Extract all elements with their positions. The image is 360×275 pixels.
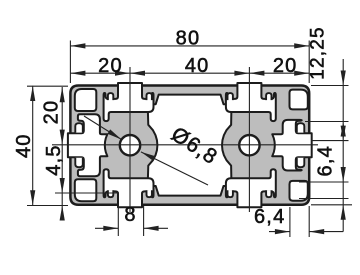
corner cavity bottom-right bbox=[290, 181, 308, 201]
core bore left Ø6.8 bbox=[120, 135, 140, 155]
dimension 8 line bbox=[95, 227, 118, 229]
svg-text:80: 80 bbox=[176, 28, 201, 50]
extension line x=118.3 bottom slot opening bbox=[117, 206, 119, 236]
svg-text:4,5: 4,5 bbox=[43, 144, 65, 175]
extension line bottom face left bbox=[27, 205, 68, 207]
dimension 6,4 line bottom bbox=[269, 231, 290, 233]
lip grooves right end slot bbox=[297, 123, 305, 132]
lip grooves top-left slot bbox=[108, 93, 113, 100]
svg-text:40: 40 bbox=[13, 133, 35, 158]
diameter leader line lower segment bbox=[141, 152, 208, 185]
extension line x=143.6 bbox=[143, 206, 145, 236]
core bore right Ø6.8 bbox=[239, 135, 259, 155]
extension line y=140.6 (6,4) bbox=[311, 140, 349, 142]
lip grooves left end slot bbox=[75, 123, 83, 132]
extension line x=289.9 bbox=[289, 207, 291, 237]
diameter leader line upper segment bbox=[84, 116, 122, 140]
right vertical dimension line bbox=[342, 59, 344, 232]
corner cavity bottom-left bbox=[75, 179, 97, 201]
T-slot top-left bbox=[104, 83, 154, 121]
svg-text:20: 20 bbox=[98, 55, 123, 77]
T-slot bottom-right (mirrored) bbox=[226, 169, 276, 207]
extension line top face left bbox=[27, 85, 68, 87]
T-slot top-right (mirrored) bbox=[226, 83, 276, 121]
extension line top face right bbox=[311, 85, 349, 87]
dimension 20 line left bbox=[61, 87, 63, 221]
extension line y=121.5 (12,25) bbox=[305, 121, 349, 123]
profile body 80x40 outer contour bbox=[70, 86, 309, 205]
extension line y=182 bbox=[299, 181, 349, 183]
svg-text:12,25: 12,25 bbox=[308, 26, 329, 80]
horizontal centerline bbox=[52, 144, 318, 146]
corner cavity top-right bbox=[290, 90, 308, 110]
dimension 4,5 arrows bbox=[60, 178, 65, 193]
extension line left top (x=70.4) bbox=[69, 41, 71, 84]
dimension 40 line left bbox=[32, 86, 34, 206]
dimension 80 line bbox=[70, 45, 309, 47]
diameter leader arrowhead lower bbox=[141, 152, 156, 161]
corner cavity top-left bbox=[75, 89, 97, 111]
svg-text:6,4: 6,4 bbox=[315, 145, 337, 176]
extension line right top (x=309.2) bbox=[308, 41, 310, 84]
svg-text:8: 8 bbox=[124, 204, 136, 226]
T-slot left end bbox=[68, 114, 107, 176]
svg-text:6,4: 6,4 bbox=[254, 206, 285, 228]
lip grooves top-right slot bbox=[266, 93, 271, 100]
extension line y=193 slot lip depth 4,5 bbox=[55, 192, 119, 194]
dimension 20/40/20 line bbox=[70, 72, 309, 74]
svg-text:20: 20 bbox=[41, 100, 63, 125]
lip grooves bottom-left slot bbox=[108, 190, 113, 197]
svg-text:20: 20 bbox=[273, 55, 298, 77]
vertical centerline right bore bbox=[248, 67, 250, 212]
extension line y=198.5 bbox=[299, 198, 349, 200]
central cavity bbox=[148, 95, 232, 196]
T-slot bottom-left bbox=[104, 169, 154, 207]
svg-text:40: 40 bbox=[185, 55, 210, 77]
T-slot right end bbox=[272, 120, 311, 171]
extension line x=309.2 right face bottom bbox=[308, 206, 310, 237]
extension line bottom face right bbox=[311, 204, 352, 206]
diameter leader arrowhead upper bbox=[107, 129, 121, 139]
vertical centerline left bore bbox=[129, 67, 131, 212]
lip grooves bottom-right slot bbox=[266, 190, 271, 197]
